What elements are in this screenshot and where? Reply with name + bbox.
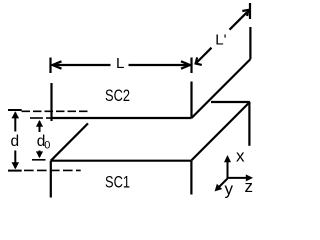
dimension d: top cap xyxy=(8,109,22,111)
dashed extension of SC2 bottom surface xyxy=(30,117,43,119)
z axis line xyxy=(228,177,250,179)
y axis arrowhead xyxy=(215,184,223,192)
svg-text:L': L' xyxy=(215,32,226,49)
dimension d: upper shaft xyxy=(14,113,16,132)
dimension d0: lower shaft xyxy=(39,151,41,158)
dimension d: down arrowhead xyxy=(12,162,20,169)
SC2 left front edge xyxy=(50,83,52,121)
svg-text:SC1: SC1 xyxy=(105,174,130,192)
dimension d0: down arrowhead xyxy=(36,151,43,158)
dimension L: right arrowhead xyxy=(181,61,190,68)
dimension d: bottom shaft xyxy=(14,151,16,169)
svg-text:z: z xyxy=(245,177,254,196)
dashed penetration-depth line inside SC1 xyxy=(24,169,81,171)
dimension L': top tick xyxy=(249,3,251,19)
SC1 top front edge xyxy=(51,160,192,162)
SC2 right front edge xyxy=(190,82,192,119)
coordinate axes xyxy=(218,159,250,189)
dimension d0: upper shaft xyxy=(39,121,41,132)
dimension d: up arrowhead xyxy=(12,111,20,118)
SC1 top-left oblique edge (partly hidden) xyxy=(51,123,88,160)
dimension L': upper arrowhead xyxy=(242,10,248,16)
dimension L: left shaft segment xyxy=(54,64,111,66)
SC1 left front edge xyxy=(50,161,52,198)
dimension L': lower shaft segment xyxy=(197,48,212,63)
x axis line xyxy=(227,159,229,179)
svg-text:y: y xyxy=(225,180,234,199)
SC1 top-right oblique edge xyxy=(191,102,250,160)
SC1 back top edge xyxy=(211,101,250,103)
SC2 back right vertical edge xyxy=(249,27,251,59)
dimension L': upper shaft segment xyxy=(230,12,247,29)
svg-text:x: x xyxy=(236,147,245,166)
svg-text:L: L xyxy=(116,55,124,72)
SC2 bottom-right oblique edge xyxy=(192,59,251,118)
y axis line xyxy=(218,179,228,189)
dimension L: left tick xyxy=(49,58,51,74)
dimension L: right tick xyxy=(190,58,192,74)
dimension L': lower arrowhead xyxy=(196,57,202,65)
dimension L: left arrowhead xyxy=(53,61,62,68)
z axis arrowhead xyxy=(246,174,253,181)
svg-text:SC2: SC2 xyxy=(105,87,130,105)
dashed penetration-depth line inside SC2 xyxy=(22,110,88,112)
svg-text:d: d xyxy=(11,133,20,150)
dimension d: bottom cap xyxy=(8,170,22,172)
SC1 back right vertical edge xyxy=(248,102,250,146)
SC1 right front edge xyxy=(190,161,192,195)
x axis arrowhead xyxy=(224,155,231,162)
dimension d0: up arrowhead xyxy=(36,120,43,127)
dimension L: right shaft segment xyxy=(129,64,190,66)
dashed extension of SC1 top surface xyxy=(32,159,46,161)
svg-text:0: 0 xyxy=(44,140,50,152)
SC2 bottom front edge xyxy=(52,117,192,119)
